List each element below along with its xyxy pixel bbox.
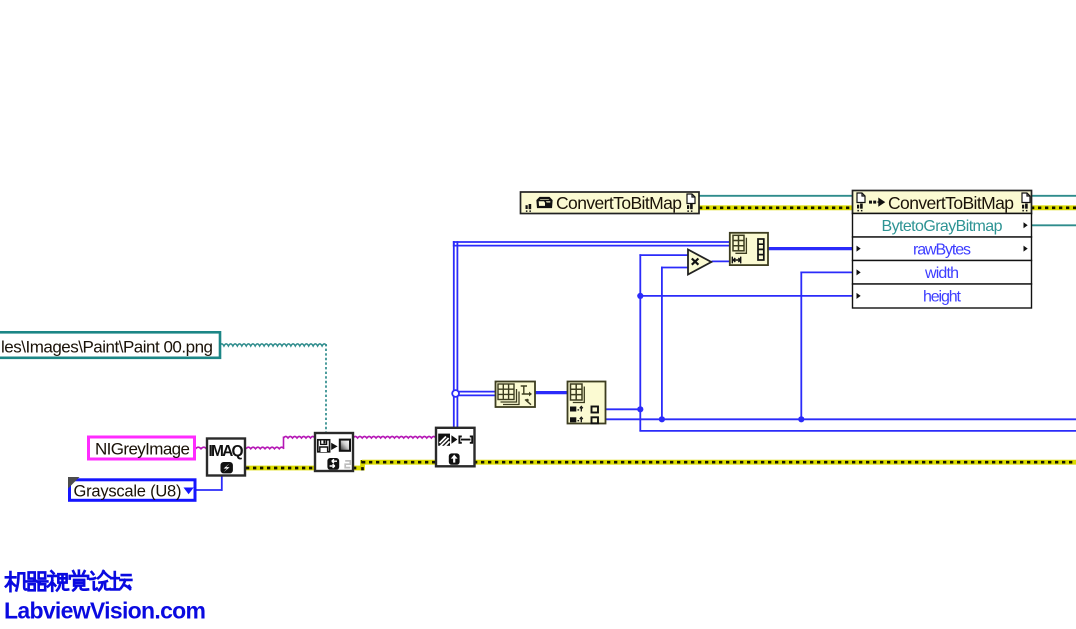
svg-text:BytetoGrayBitmap: BytetoGrayBitmap <box>882 218 1003 235</box>
svg-text:ConvertToBitMap: ConvertToBitMap <box>556 193 682 213</box>
svg-text:ConvertToBitMap: ConvertToBitMap <box>888 193 1014 213</box>
svg-text:IMAQ: IMAQ <box>209 443 244 460</box>
svg-text:rawBytes: rawBytes <box>913 241 971 258</box>
svg-text:width: width <box>924 265 959 282</box>
svg-text:NIGreyImage: NIGreyImage <box>95 440 190 459</box>
svg-text:height: height <box>923 289 962 306</box>
svg-text:LabviewVision.com: LabviewVision.com <box>4 598 206 624</box>
svg-text:les\Images\Paint\Paint 00.png: les\Images\Paint\Paint 00.png <box>1 338 213 357</box>
svg-text:Grayscale (U8): Grayscale (U8) <box>74 482 182 500</box>
